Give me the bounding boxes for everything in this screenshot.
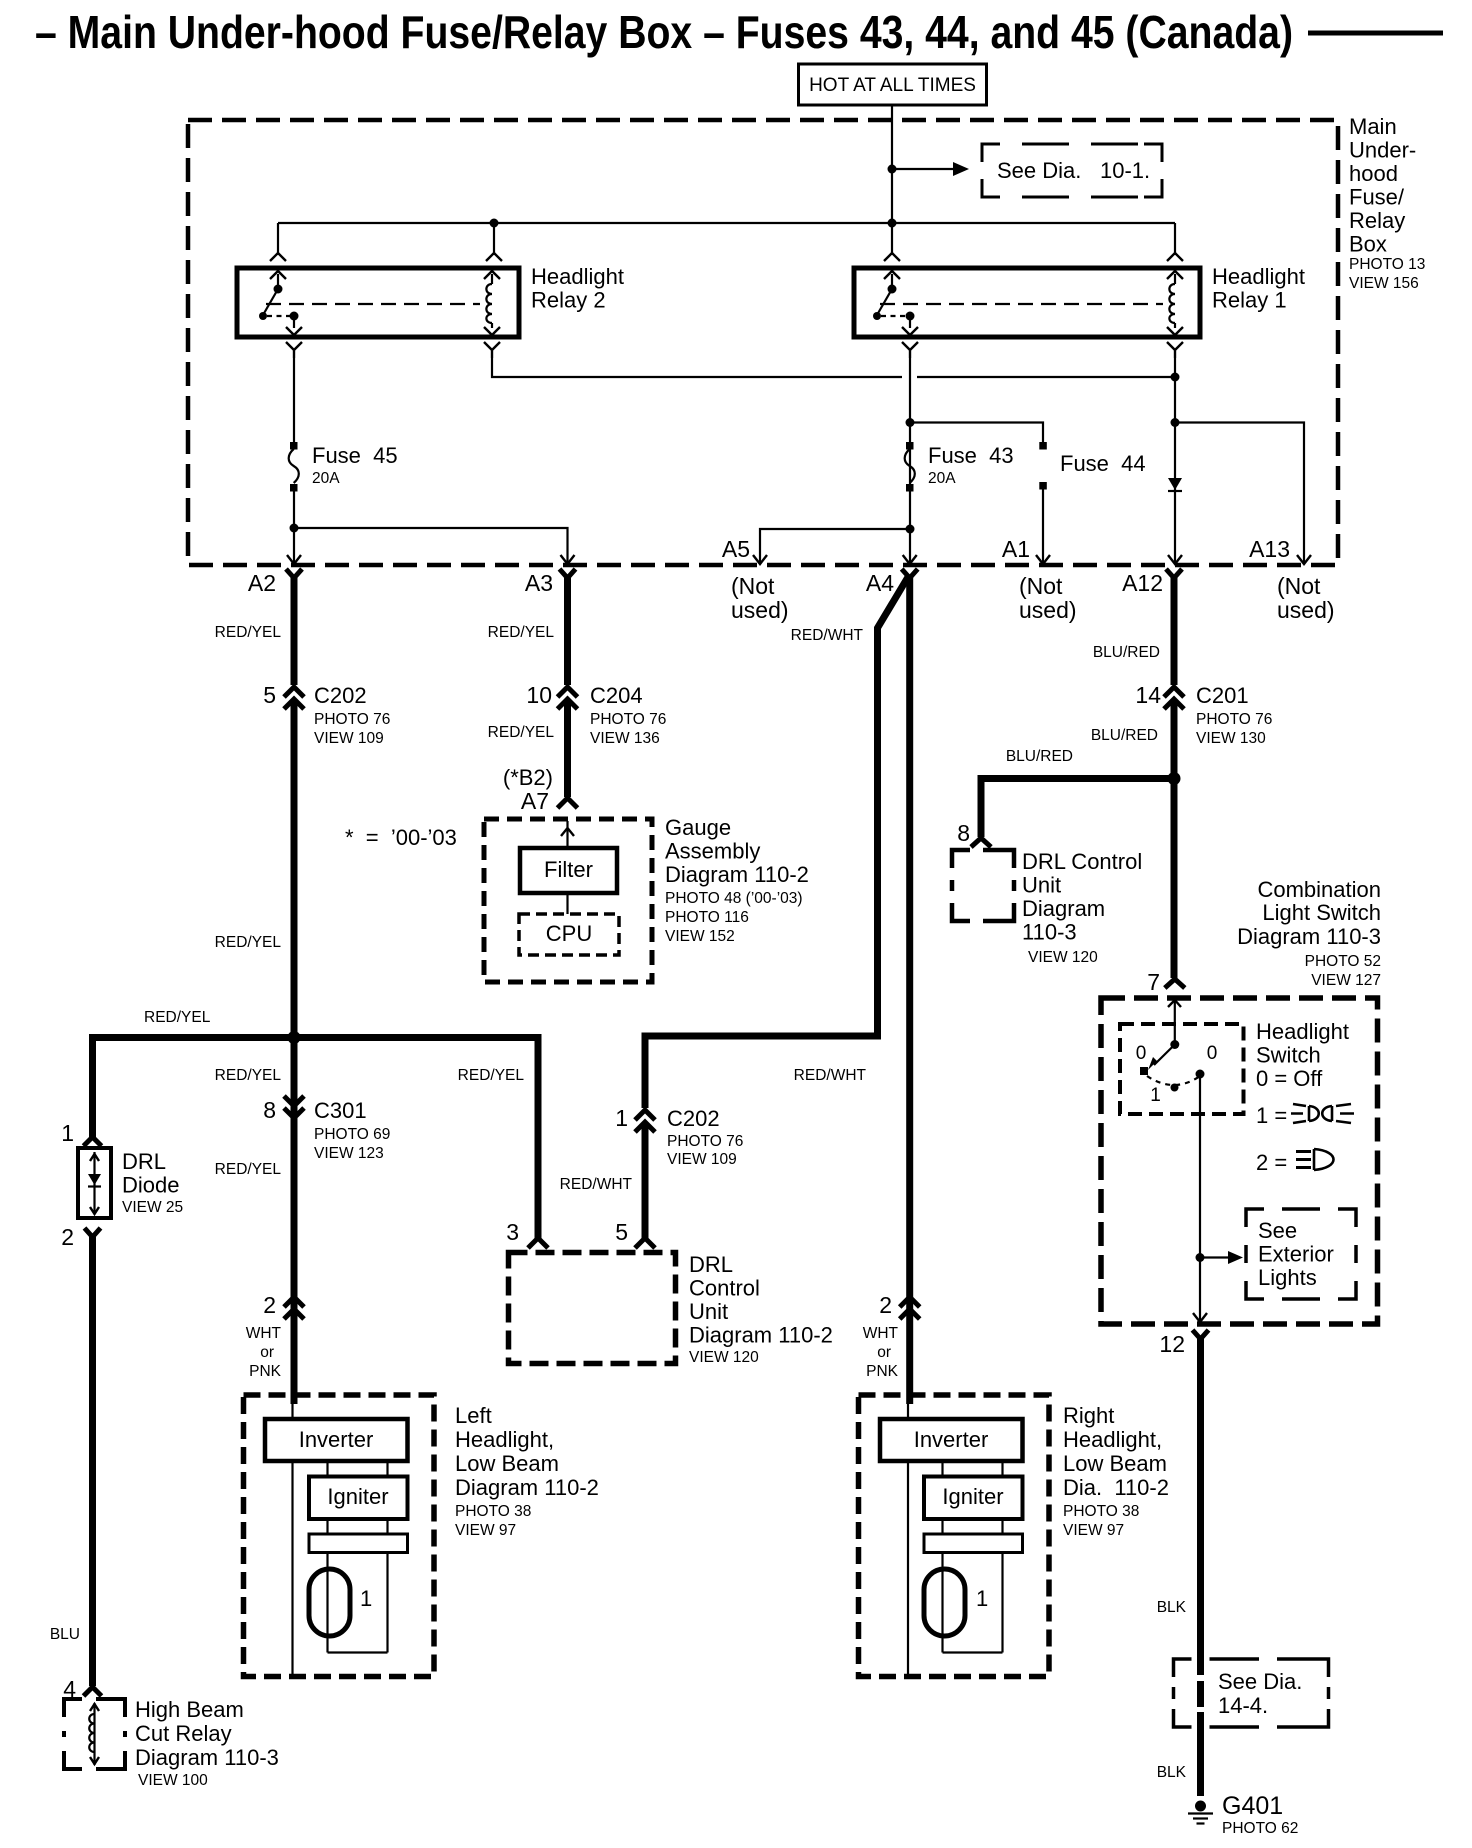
svg-text:RED/YEL: RED/YEL <box>215 1067 282 1084</box>
wire relay2 coil down and right <box>492 358 902 377</box>
HOT AT ALL TIMES box <box>799 64 987 105</box>
svg-text:Diagram: Diagram <box>1022 896 1105 921</box>
wire A12 connector chevron <box>1166 569 1182 578</box>
wire relay1 coil down <box>1174 358 1176 377</box>
svg-text:Diode: Diode <box>122 1173 179 1198</box>
pin chevrons above relays <box>270 253 1183 261</box>
wire A2 connector chevron <box>286 569 302 578</box>
wire A12 BLU/RED <box>1171 576 1178 685</box>
svg-text:Left: Left <box>455 1403 492 1428</box>
pin 3 chevron <box>528 1238 548 1248</box>
svg-text:RED/YEL: RED/YEL <box>458 1067 525 1084</box>
left headlight internals <box>265 1400 408 1676</box>
svg-text:PNK: PNK <box>249 1363 282 1380</box>
node relay2 coil tap <box>490 219 499 228</box>
svg-text:Diagram 110-2: Diagram 110-2 <box>689 1323 833 1348</box>
wire branch to A5 <box>760 529 910 562</box>
node diode branch <box>1171 418 1180 427</box>
wire BLK to ground <box>1197 1337 1204 1675</box>
svg-text:Headlight: Headlight <box>531 264 624 289</box>
wire fuse45 to A2 <box>293 488 295 562</box>
combination light switch label <box>1237 877 1381 989</box>
connector right headlight pin2 <box>900 1297 920 1319</box>
cpu box <box>519 914 619 955</box>
svg-text:Fuse/: Fuse/ <box>1349 185 1405 210</box>
title dash <box>1308 31 1443 36</box>
svg-text:* = ’00-’03: * = ’00-’03 <box>345 825 457 850</box>
see exterior lights box <box>1246 1209 1356 1299</box>
svg-text:10-1.: 10-1. <box>1100 158 1150 183</box>
svg-text:Control: Control <box>689 1276 760 1301</box>
wire branch to DRL control unit pin8 <box>981 779 1174 838</box>
svg-text:or: or <box>877 1344 891 1361</box>
diode D1 <box>1168 478 1182 490</box>
relay: Headlight Relay 2 <box>237 268 519 337</box>
pin 2 chevron below diode <box>85 1228 101 1237</box>
svg-text:Switch: Switch <box>1256 1043 1321 1068</box>
node relay1 switch to fuse44 branch <box>906 418 915 427</box>
wire relay2 switch to fuse 45 <box>293 358 295 446</box>
gauge assembly label <box>665 815 809 945</box>
svg-text:(*B2): (*B2) <box>503 765 553 790</box>
svg-text:Relay 2: Relay 2 <box>531 288 606 313</box>
connector C301 pin8 <box>284 1096 304 1118</box>
svg-text:BLU/RED: BLU/RED <box>1091 727 1158 744</box>
node see exterior lights tap <box>1196 1253 1205 1262</box>
wire BLU to high beam cut relay <box>89 1234 96 1686</box>
see dia 14-4 box <box>1174 1659 1329 1727</box>
svg-text:Headlight: Headlight <box>1212 264 1305 289</box>
svg-text:Low Beam: Low Beam <box>1063 1451 1167 1476</box>
svg-text:Main: Main <box>1349 114 1397 139</box>
svg-text:2: 2 <box>263 1292 276 1318</box>
wire pin7 into switch <box>1174 998 1176 1044</box>
svg-text:WHT: WHT <box>863 1325 899 1342</box>
svg-text:1 =: 1 = <box>1256 1103 1287 1128</box>
gauge assembly box <box>484 819 652 982</box>
svg-text:VIEW 127: VIEW 127 <box>1311 972 1381 989</box>
svg-text:0 = Off: 0 = Off <box>1256 1066 1323 1091</box>
svg-text:1: 1 <box>615 1105 628 1131</box>
svg-text:used): used) <box>1019 597 1077 623</box>
svg-text:PHOTO 48 (’00-’03): PHOTO 48 (’00-’03) <box>665 890 803 907</box>
svg-text:DRL: DRL <box>122 1149 166 1174</box>
wire A2 RED/YEL main <box>291 576 298 685</box>
svg-text:PHOTO 116: PHOTO 116 <box>665 909 749 926</box>
DRL control unit box (center) <box>509 1253 676 1364</box>
main box label <box>1349 114 1425 292</box>
See Dia. 10-1. box <box>982 144 1162 197</box>
svg-text:PHOTO 13: PHOTO 13 <box>1349 256 1425 273</box>
wire top bus horizontal <box>278 222 1175 224</box>
svg-text:PHOTO 52: PHOTO 52 <box>1305 953 1381 970</box>
svg-text:Inverter: Inverter <box>914 1427 989 1452</box>
svg-text:See Dia.: See Dia. <box>1218 1669 1302 1694</box>
svg-text:2 =: 2 = <box>1256 1150 1287 1175</box>
svg-text:7: 7 <box>1147 969 1160 995</box>
svg-text:Dia. 110-2: Dia. 110-2 <box>1063 1475 1169 1500</box>
svg-text:RED/WHT: RED/WHT <box>794 1067 867 1084</box>
svg-text:VIEW 97: VIEW 97 <box>1063 1522 1124 1539</box>
svg-text:RED/YEL: RED/YEL <box>215 934 282 951</box>
svg-text:Diagram 110-2: Diagram 110-2 <box>455 1475 599 1500</box>
svg-text:Fuse 43: Fuse 43 <box>928 443 1014 468</box>
fuse F45 <box>290 442 298 450</box>
pin 1 chevron DRL diode <box>84 1137 102 1146</box>
relay: Headlight Relay 1 <box>854 268 1200 337</box>
svg-text:Low Beam: Low Beam <box>455 1451 559 1476</box>
svg-text:PHOTO 69: PHOTO 69 <box>314 1126 390 1143</box>
svg-text:HOT AT ALL TIMES: HOT AT ALL TIMES <box>809 75 976 96</box>
wire branch to fuse 44 <box>910 423 1043 445</box>
wire hot feed vertical <box>891 122 893 253</box>
svg-text:Combination: Combination <box>1257 877 1381 902</box>
svg-text:PHOTO 62: PHOTO 62 <box>1222 1820 1298 1837</box>
svg-text:BLK: BLK <box>1157 1764 1187 1781</box>
svg-text:A2: A2 <box>248 570 276 596</box>
connector left headlight pin2 <box>284 1297 304 1319</box>
svg-text:PHOTO 38: PHOTO 38 <box>455 1503 531 1520</box>
svg-text:Lights: Lights <box>1258 1265 1317 1290</box>
headlight switch inner box <box>1120 1024 1244 1114</box>
svg-text:1: 1 <box>360 1586 372 1611</box>
connector C201 pin14 <box>1164 687 1184 709</box>
wire drop to relay2 switch <box>277 223 279 253</box>
wire coil bus continues after break <box>917 376 1175 378</box>
svg-text:BLU/RED: BLU/RED <box>1093 644 1160 661</box>
svg-text:3: 3 <box>506 1219 519 1245</box>
wire relay1 switch down <box>909 358 911 562</box>
node junction to See Dia <box>888 165 897 174</box>
wire arrow to See Dia 10-1 <box>892 168 955 170</box>
DRL diode box <box>78 1148 111 1218</box>
svg-text:A4: A4 <box>866 570 894 596</box>
connector C204 pin10 <box>558 687 578 709</box>
wire drop to relay1 coil <box>1174 223 1176 253</box>
fuse F44 (terminals) <box>1039 442 1047 450</box>
wire branch to A3 <box>294 528 568 562</box>
svg-text:used): used) <box>1277 597 1335 623</box>
svg-text:A13: A13 <box>1249 536 1290 562</box>
svg-text:12: 12 <box>1159 1331 1185 1357</box>
wire arrow to see exterior lights <box>1200 1256 1230 1258</box>
svg-text:BLU: BLU <box>50 1626 80 1643</box>
svg-text:VIEW 152: VIEW 152 <box>665 928 735 945</box>
connector C202 pin5 <box>284 687 304 709</box>
svg-text:Unit: Unit <box>689 1299 728 1324</box>
svg-text:C202: C202 <box>314 683 367 708</box>
DRL diode label <box>122 1149 183 1216</box>
svg-text:hood: hood <box>1349 161 1398 186</box>
node BLU/RED junction <box>1168 772 1181 785</box>
svg-text:Inverter: Inverter <box>299 1427 374 1452</box>
svg-text:Igniter: Igniter <box>327 1484 388 1509</box>
svg-text:RED/YEL: RED/YEL <box>144 1009 211 1026</box>
svg-text:110-3: 110-3 <box>1022 920 1077 945</box>
left headlight label <box>455 1403 599 1539</box>
fuse F43 <box>906 442 914 450</box>
high beam cut relay coil <box>89 1703 99 1765</box>
svg-text:5: 5 <box>263 682 276 708</box>
svg-text:20A: 20A <box>312 470 340 487</box>
svg-text:Cut Relay: Cut Relay <box>135 1721 232 1746</box>
svg-text:VIEW 109: VIEW 109 <box>667 1151 737 1168</box>
svg-text:PHOTO 76: PHOTO 76 <box>590 711 666 728</box>
exit arrow at switch box bottom <box>1193 1313 1207 1322</box>
right headlight label <box>1063 1403 1169 1539</box>
svg-text:0: 0 <box>1207 1043 1218 1064</box>
svg-text:BLU/RED: BLU/RED <box>1006 748 1073 765</box>
node relay1 coil junction <box>1171 373 1180 382</box>
bulb right <box>924 1569 965 1636</box>
svg-text:1: 1 <box>1150 1085 1161 1106</box>
filter box <box>520 848 617 893</box>
svg-text:2: 2 <box>61 1224 74 1250</box>
svg-text:VIEW 136: VIEW 136 <box>590 730 660 747</box>
wire switch output down <box>1199 1074 1201 1322</box>
svg-text:0: 0 <box>1136 1043 1147 1064</box>
svg-text:Exterior: Exterior <box>1258 1242 1334 1267</box>
high beam cut relay label <box>135 1697 279 1789</box>
border exit arrows <box>287 555 1311 564</box>
svg-text:VIEW 100: VIEW 100 <box>138 1772 208 1789</box>
svg-text:DRL Control: DRL Control <box>1022 849 1142 874</box>
wire A4 left RED/WHT diagonal <box>878 577 909 1040</box>
svg-text:CPU: CPU <box>546 921 592 946</box>
node below fuse 43 <box>906 525 915 534</box>
svg-text:Diagram 110-2: Diagram 110-2 <box>665 862 809 887</box>
svg-text:Igniter: Igniter <box>942 1484 1003 1509</box>
svg-text:– Main Under-hood Fuse/Relay B: – Main Under-hood Fuse/Relay Box – Fuses… <box>35 6 1293 58</box>
svg-text:Right: Right <box>1063 1403 1114 1428</box>
svg-text:Diagram 110-3: Diagram 110-3 <box>135 1745 279 1770</box>
node RED/YEL bus junction <box>288 1031 301 1044</box>
wire filter to cpu <box>566 893 568 914</box>
svg-text:20A: 20A <box>928 470 956 487</box>
svg-text:Relay: Relay <box>1349 208 1405 233</box>
svg-text:RED/YEL: RED/YEL <box>215 1161 282 1178</box>
svg-text:VIEW 156: VIEW 156 <box>1349 275 1419 292</box>
pin 4 chevron <box>84 1687 102 1696</box>
DRL control unit label <box>689 1252 833 1366</box>
node below fuse 45 <box>290 524 299 533</box>
svg-text:PNK: PNK <box>866 1363 899 1380</box>
svg-text:Light Switch: Light Switch <box>1262 900 1381 925</box>
DRL control unit right label <box>1022 849 1142 966</box>
svg-text:Under-: Under- <box>1349 138 1416 163</box>
svg-text:Headlight,: Headlight, <box>455 1427 554 1452</box>
svg-text:14-4.: 14-4. <box>1218 1693 1268 1718</box>
svg-text:VIEW 109: VIEW 109 <box>314 730 384 747</box>
svg-text:(Not: (Not <box>731 573 775 599</box>
svg-text:VIEW 123: VIEW 123 <box>314 1145 384 1162</box>
wire RED/YEL bus <box>93 1038 539 1239</box>
svg-text:Diagram 110-3: Diagram 110-3 <box>1237 924 1381 949</box>
Main Under-hood Fuse/Relay Box dashed border <box>188 120 1338 565</box>
svg-text:DRL: DRL <box>689 1252 733 1277</box>
svg-text:Headlight: Headlight <box>1256 1019 1349 1044</box>
wire A3 RED/YEL <box>564 576 571 685</box>
svg-text:RED/WHT: RED/WHT <box>791 627 864 644</box>
svg-text:High Beam: High Beam <box>135 1697 244 1722</box>
svg-text:G401: G401 <box>1222 1792 1283 1820</box>
relay 1 bottom pins <box>902 342 1183 358</box>
headlight switch internals <box>1136 1040 1218 1106</box>
bulb left <box>309 1569 350 1636</box>
svg-text:8: 8 <box>263 1097 276 1123</box>
svg-text:Filter: Filter <box>544 857 593 882</box>
wire A4 right RED/WHT down <box>906 576 913 1404</box>
wire RED/WHT bus to C202 pin1 <box>645 1036 878 1108</box>
svg-text:See Dia.: See Dia. <box>997 158 1081 183</box>
right headlight internals <box>880 1400 1023 1676</box>
wire A4 connector chevron <box>902 569 918 578</box>
high beam cut relay box <box>64 1699 125 1769</box>
svg-text:A1: A1 <box>1002 536 1030 562</box>
svg-text:A7: A7 <box>521 788 549 814</box>
svg-text:A5: A5 <box>722 536 750 562</box>
wire A3 connector chevron <box>560 569 576 578</box>
svg-text:RED/YEL: RED/YEL <box>215 624 282 641</box>
left headlight box <box>244 1395 435 1677</box>
svg-text:A3: A3 <box>525 570 553 596</box>
svg-text:1: 1 <box>976 1586 988 1611</box>
svg-text:See: See <box>1258 1218 1297 1243</box>
svg-text:Fuse 45: Fuse 45 <box>312 443 398 468</box>
svg-text:Relay 1: Relay 1 <box>1212 288 1287 313</box>
svg-text:(Not: (Not <box>1277 573 1321 599</box>
svg-text:C301: C301 <box>314 1098 367 1123</box>
svg-text:PHOTO 76: PHOTO 76 <box>1196 711 1272 728</box>
DRL diode internals <box>88 1152 101 1214</box>
wire to diode and A12 <box>1174 377 1176 562</box>
svg-text:Unit: Unit <box>1022 873 1061 898</box>
svg-text:10: 10 <box>526 682 552 708</box>
svg-text:C201: C201 <box>1196 683 1249 708</box>
connector C202 pin1 <box>635 1110 655 1132</box>
svg-text:PHOTO 76: PHOTO 76 <box>667 1133 743 1150</box>
wire into filter <box>566 821 568 848</box>
svg-text:WHT: WHT <box>246 1325 282 1342</box>
combination light switch box <box>1101 998 1378 1324</box>
svg-text:Fuse 44: Fuse 44 <box>1060 451 1146 476</box>
svg-text:used): used) <box>731 597 789 623</box>
wire branch to A13 <box>1175 423 1304 563</box>
pin 7 chevron <box>1165 979 1185 988</box>
relay 2 bottom pins <box>286 342 500 358</box>
svg-text:or: or <box>260 1344 274 1361</box>
svg-text:1: 1 <box>61 1120 74 1146</box>
node junction top bus <box>888 219 897 228</box>
headlight switch legend <box>1256 1019 1349 1175</box>
svg-text:C204: C204 <box>590 683 643 708</box>
pin 8 chevron <box>971 838 991 847</box>
DRL control unit box (right) <box>952 850 1014 921</box>
pin 12 chevron <box>1193 1330 1209 1339</box>
right headlight box <box>859 1395 1050 1677</box>
svg-text:Box: Box <box>1349 232 1387 257</box>
svg-text:Assembly: Assembly <box>665 839 760 864</box>
ground G401 <box>1188 1801 1213 1824</box>
svg-text:(Not: (Not <box>1019 573 1063 599</box>
svg-text:5: 5 <box>615 1219 628 1245</box>
svg-text:PHOTO 76: PHOTO 76 <box>314 711 390 728</box>
svg-text:RED/YEL: RED/YEL <box>488 724 555 741</box>
svg-text:2: 2 <box>879 1292 892 1318</box>
svg-text:14: 14 <box>1135 682 1161 708</box>
pin 5 chevron <box>635 1238 655 1248</box>
svg-text:8: 8 <box>957 820 970 846</box>
svg-text:A12: A12 <box>1122 570 1163 596</box>
parking lamp symbol <box>1291 1104 1354 1123</box>
wire fuse44 to A1 <box>1042 486 1044 562</box>
wire drop to relay2 coil <box>493 223 495 253</box>
headlamp symbol <box>1296 1149 1334 1170</box>
svg-text:VIEW 120: VIEW 120 <box>1028 949 1098 966</box>
svg-text:VIEW 97: VIEW 97 <box>455 1522 516 1539</box>
svg-text:VIEW 120: VIEW 120 <box>689 1349 759 1366</box>
svg-text:C202: C202 <box>667 1106 720 1131</box>
svg-text:VIEW 25: VIEW 25 <box>122 1199 183 1216</box>
svg-text:PHOTO 38: PHOTO 38 <box>1063 1503 1139 1520</box>
svg-text:RED/WHT: RED/WHT <box>560 1176 633 1193</box>
pin A7 chevron into gauge <box>558 798 578 808</box>
svg-text:BLK: BLK <box>1157 1599 1187 1616</box>
svg-text:Headlight,: Headlight, <box>1063 1427 1162 1452</box>
svg-text:Gauge: Gauge <box>665 815 731 840</box>
wire HOT box to main box <box>891 105 893 122</box>
svg-text:VIEW 130: VIEW 130 <box>1196 730 1266 747</box>
svg-text:RED/YEL: RED/YEL <box>488 624 555 641</box>
